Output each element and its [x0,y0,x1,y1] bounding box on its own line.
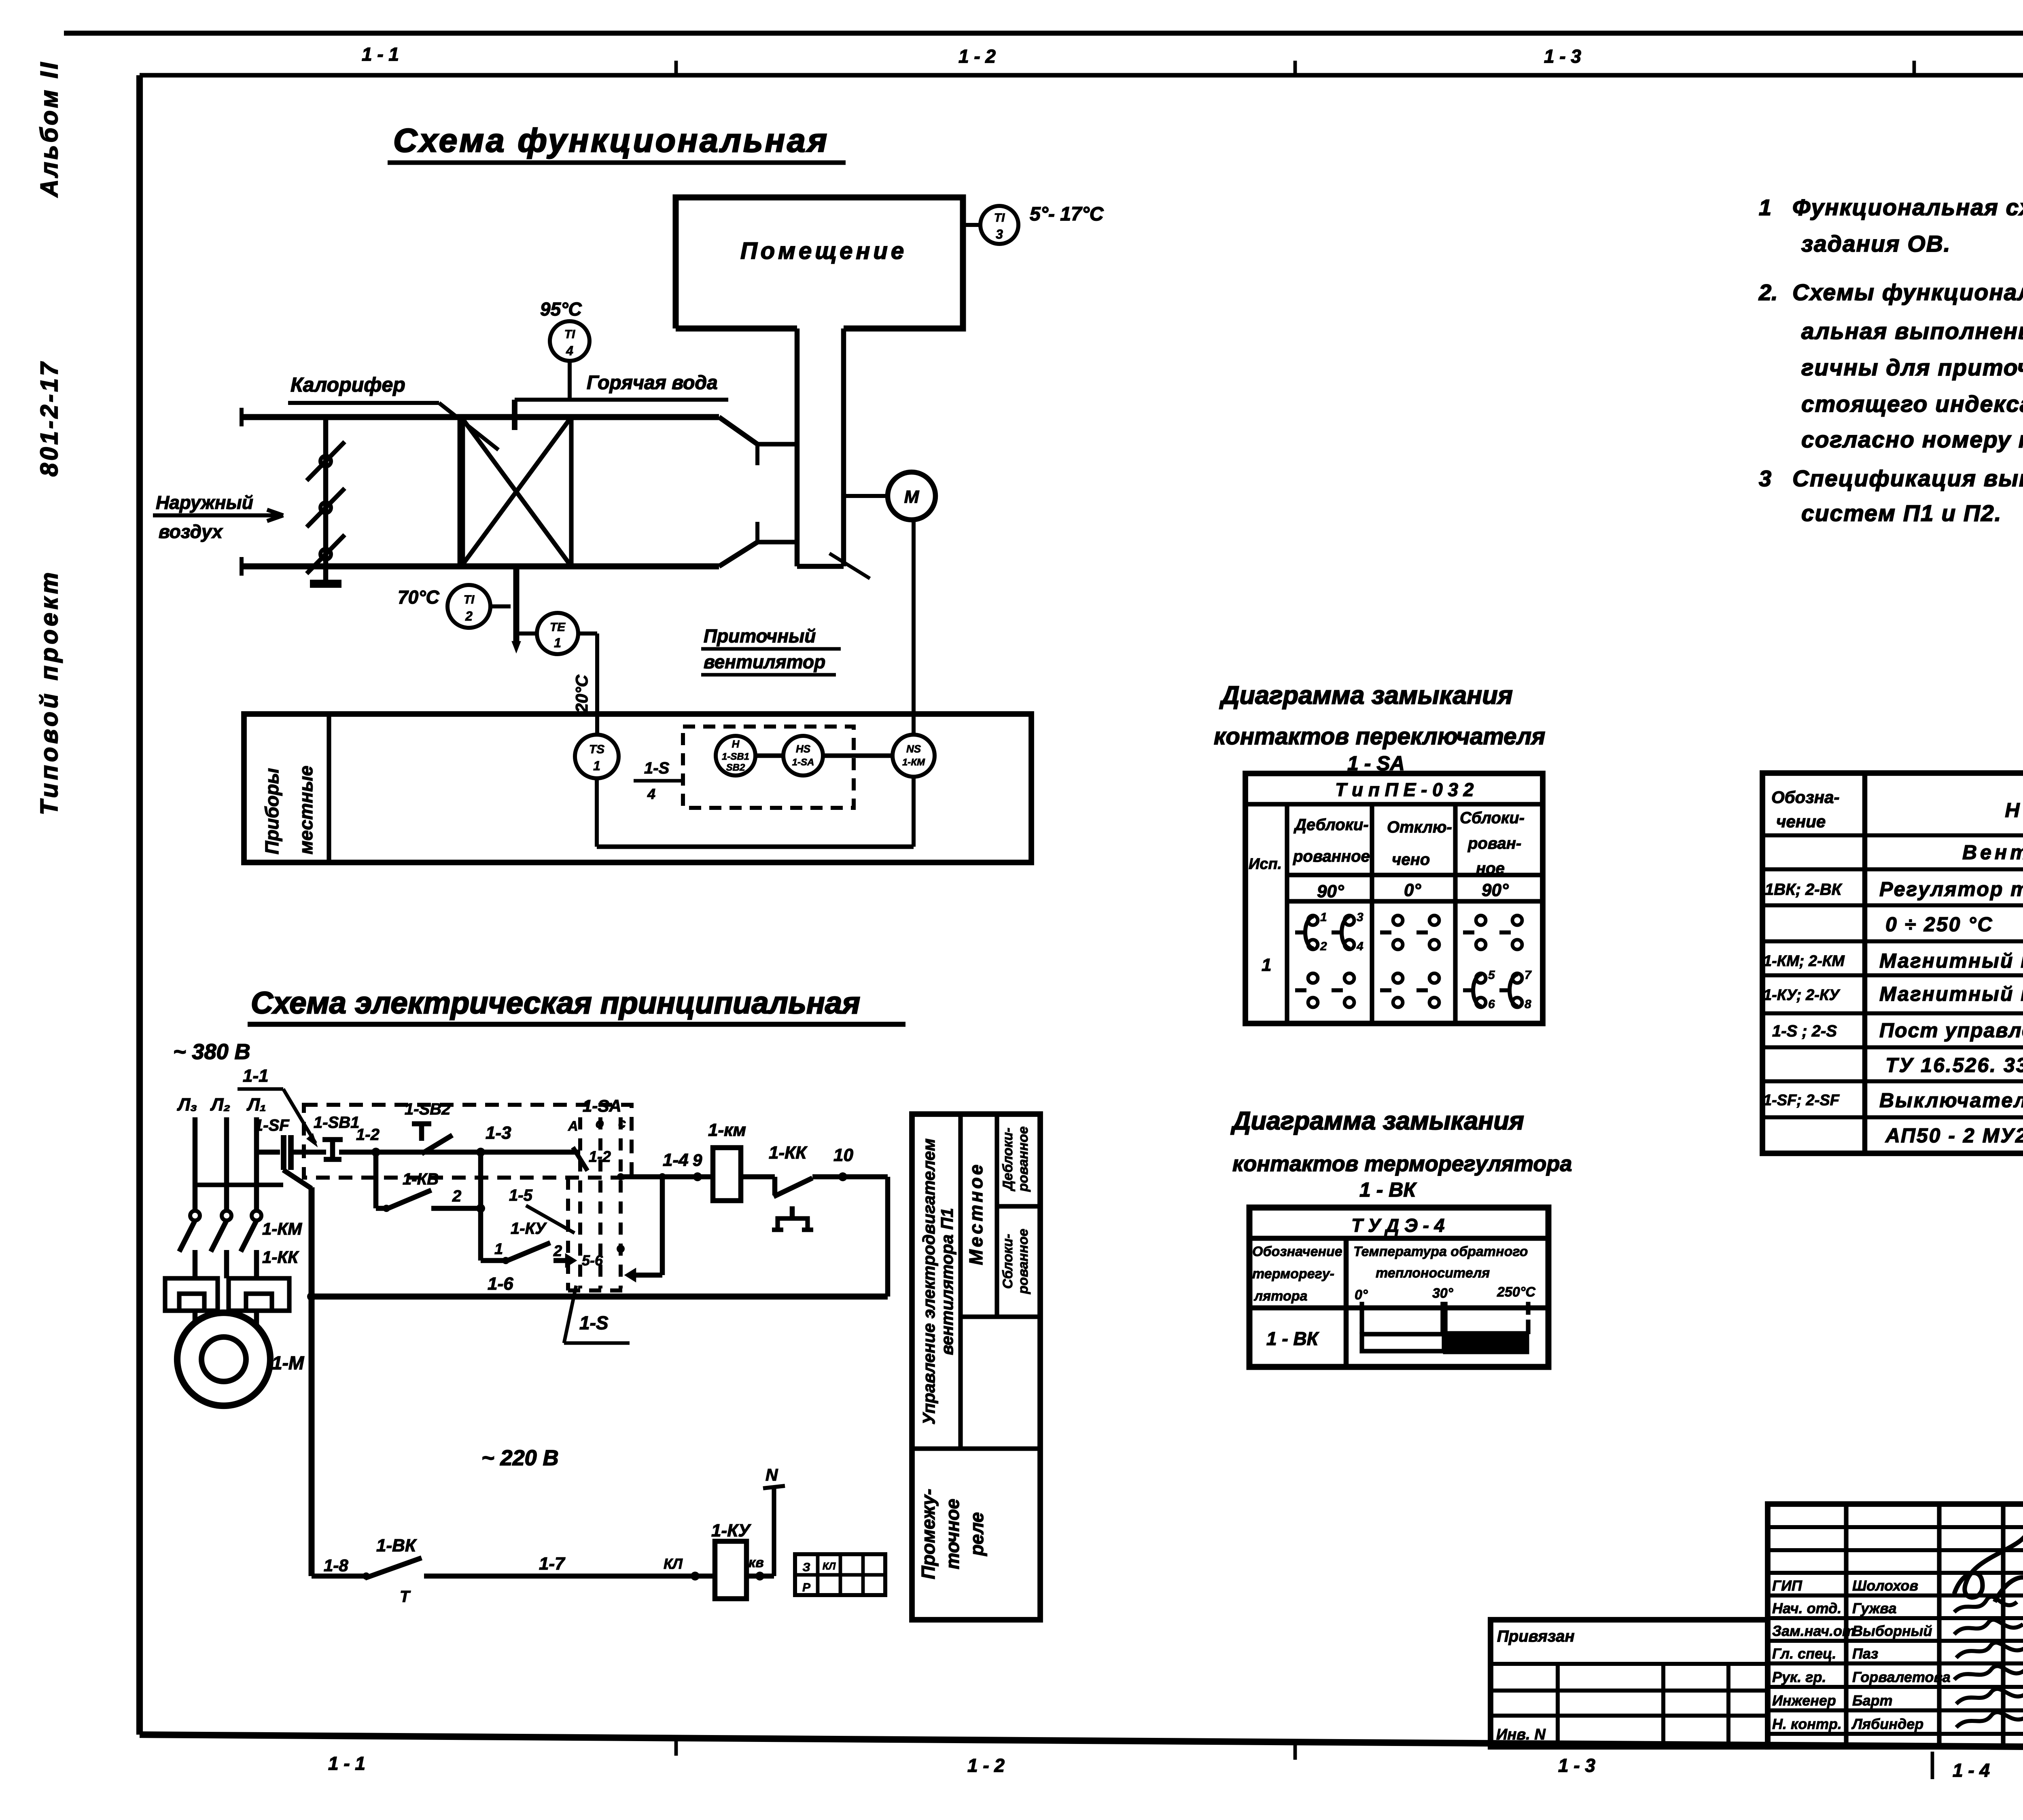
svg-text:Л₂: Л₂ [210,1095,230,1114]
svg-text:1-SВ2: 1-SВ2 [405,1100,450,1118]
hot water pipe [515,398,728,402]
svg-text:Сблоки-: Сблоки- [1460,809,1525,827]
svg-text:Т У Д Э - 4: Т У Д Э - 4 [1351,1215,1444,1236]
room box Помещение [676,197,963,328]
svg-text:1-S ; 2-S: 1-S ; 2-S [1772,1022,1837,1040]
contact symbols sblokirovannoe open pair [1463,930,1474,934]
sensor TI-3 [963,223,981,227]
sheet outer top border line [64,31,2023,36]
svg-text:1-S: 1-S [579,1312,609,1333]
junction node for KV branch [371,1148,380,1157]
svg-text:Лябиндер: Лябиндер [1851,1716,1923,1732]
scale tick 0 [1359,1302,1364,1334]
svg-text:7: 7 [1525,968,1532,982]
svg-text:Схема функциональная: Схема функциональная [393,122,829,159]
bottom zone tick 3 [1931,1752,1934,1779]
svg-text:о: о [596,1116,604,1131]
schematic title underline [248,1022,905,1027]
dashed box of control post 1-S [304,1105,632,1178]
svg-text:ТУ 16.526. 333 - 74: ТУ 16.526. 333 - 74 [1885,1054,2023,1076]
svg-text:1-SВ1: 1-SВ1 [722,751,749,762]
svg-text:Исп.: Исп. [1249,856,1282,873]
svg-text:1-КМ: 1-КМ [902,757,925,768]
svg-text:Гужва: Гужва [1852,1600,1896,1617]
svg-text:Схемы функциональная и электри: Схемы функциональная и электрическая при… [1792,280,2023,305]
parts table row line 8 [1762,1079,2023,1083]
svg-text:альная выполнены для приточной: альная выполнены для приточной системы П… [1801,318,2023,344]
svg-text:70°С: 70°С [398,587,440,608]
svg-text:1-КМ; 2-КМ: 1-КМ; 2-КМ [1763,953,1845,970]
sensor TE-1 [537,613,578,654]
svg-text:Деблоки-: Деблоки- [1294,816,1369,834]
svg-text:НS: НS [796,743,811,755]
parts table frame [1762,773,2023,1153]
svg-text:систем П1 и П2.: систем П1 и П2. [1801,500,2002,526]
svg-text:Н: Н [732,738,740,750]
svg-text:Сблоки-: Сблоки- [1000,1234,1016,1289]
svg-text:6: 6 [1488,998,1495,1011]
svg-text:Н. контр.: Н. контр. [1772,1716,1842,1732]
svg-text:М: М [904,487,920,507]
svg-text:Инв. N: Инв. N [1496,1726,1546,1743]
column divider 2 [1370,804,1374,1023]
svg-text:801-2-17: 801-2-17 [36,360,63,477]
phase link wire [195,1182,283,1187]
svg-text:Спецификация выполнена для при: Спецификация выполнена для приточных [1792,466,2023,492]
svg-text:1-ВК: 1-ВК [376,1536,417,1555]
parts table column oboznachenie [1862,773,1868,1153]
signature col 1 [1844,1504,1848,1747]
selector 1-SA dashed column O [598,1117,602,1288]
svg-text:0°: 0° [1355,1287,1368,1303]
bottom zone tick 1 [674,1738,678,1756]
svg-text:1 - 2: 1 - 2 [967,1755,1005,1776]
svg-text:5-6: 5-6 [582,1252,603,1269]
parts table row line 2 [1762,867,2023,871]
main contact terminals [190,1211,200,1220]
svg-text:Инженер: Инженер [1772,1692,1836,1709]
svg-text:ТI: ТI [564,328,575,341]
svg-text:4: 4 [647,786,655,802]
svg-text:1 - 1: 1 - 1 [362,44,399,65]
svg-text:рованное: рованное [1016,1126,1031,1192]
closed state bar filled [1444,1332,1528,1353]
svg-text:1-S: 1-S [644,759,670,777]
svg-text:Приточный: Приточный [704,625,816,646]
svg-text:4: 4 [1356,940,1364,953]
indicator H 1-SB1 SB2 [716,736,755,775]
svg-text:2: 2 [1320,940,1327,953]
parts table row line 4 [1762,939,2023,943]
header bottom line [1249,1305,1548,1311]
sensor TI-2 [447,585,490,628]
svg-text:Управление электродвигателем: Управление электродвигателем [919,1138,938,1424]
inner frame bottom border [140,1735,2023,1750]
heater section with cross [458,417,465,566]
svg-text:согласно номеру приточной сист: согласно номеру приточной системы. [1801,427,2023,453]
svg-text:Л₁: Л₁ [246,1095,266,1114]
svg-text:1: 1 [494,1241,503,1258]
svg-text:~ 220 В: ~ 220 В [481,1446,559,1470]
svg-text:1-КК: 1-КК [769,1143,808,1163]
svg-text:1-км: 1-км [708,1120,746,1140]
sensor TS-1 [575,735,619,778]
svg-text:1 - 3: 1 - 3 [1544,46,1581,67]
svg-text:Магнитный пускатель ПМЕ - 08: Магнитный пускатель ПМЕ - 081 [1879,983,2023,1005]
feedback wire to column C [660,1177,665,1275]
contact symbols deblokirovannoe open pair [1295,988,1306,992]
title block signature table frame [1768,1504,2023,1747]
right return wire [885,1177,891,1297]
left extension col 1 [1556,1664,1560,1747]
svg-text:вентилятор: вентилятор [704,651,825,672]
signature row line 4 [1768,1593,2023,1598]
svg-text:Отклю-: Отклю- [1387,818,1452,836]
svg-text:Выключатель автоматический: Выключатель автоматический [1879,1089,2023,1112]
signature row line 1 [1768,1525,2023,1529]
svg-text:1-М: 1-М [272,1352,305,1373]
left extension row line 1 [1491,1662,1768,1666]
svg-text:1-3: 1-3 [486,1123,511,1143]
svg-text:Н а и м е н о в а н и е: Н а и м е н о в а н и е [2005,799,2023,822]
svg-text:1-КУ; 2-КУ: 1-КУ; 2-КУ [1763,987,1841,1004]
title block left extension frame [1491,1620,1768,1747]
top zone tick 3 [1913,61,1916,77]
parts table row line 5 [1762,973,2023,977]
svg-text:Вентиляторы П1, П2: Вентиляторы П1, П2 [1962,841,2023,864]
svg-text:контактов переключателя: контактов переключателя [1214,723,1545,750]
phase wire L3 [193,1117,198,1211]
svg-text:1-5: 1-5 [509,1186,533,1204]
top zone tick 2 [1294,61,1297,77]
svg-text:1-1: 1-1 [243,1066,269,1086]
svg-text:Обозначение: Обозначение [1252,1244,1342,1259]
signature row line 2 [1768,1548,2023,1552]
svg-text:3: 3 [1759,466,1771,491]
air damper louver [323,417,329,584]
thermal overload heater right [229,1278,289,1311]
sensor well stem [513,566,520,646]
svg-text:5°- 17°С: 5°- 17°С [1030,203,1104,225]
svg-text:Альбом II: Альбом II [36,60,63,198]
svg-text:3: 3 [996,227,1003,242]
svg-text:гичны для приточной системы П2: гичны для приточной системы П2 с заменой… [1801,355,2023,381]
signature col 3 [2001,1504,2005,1747]
signature row line 8 [1768,1685,2023,1689]
svg-text:Т: Т [400,1588,411,1606]
svg-text:Помещение: Помещение [740,238,907,264]
left extension row line 2 [1491,1689,1768,1693]
svg-text:терморегу-: терморегу- [1252,1266,1334,1282]
svg-text:Диаграмма замыкания: Диаграмма замыкания [1219,681,1513,710]
terminal strip table [795,1554,885,1595]
svg-text:ТI: ТI [464,593,475,606]
svg-text:SВ2: SВ2 [726,762,745,773]
svg-text:ТS: ТS [589,743,604,756]
subheader line 2 [1287,899,1543,903]
svg-text:Зам.нач.от: Зам.нач.от [1772,1623,1855,1639]
svg-text:1-SF: 1-SF [254,1117,290,1134]
svg-text:Деблоки-: Деблоки- [1000,1127,1016,1191]
parts table row line 7 [1762,1045,2023,1049]
contact symbols sblokirovannoe closed pair [1463,988,1474,992]
svg-text:Гл. спец.: Гл. спец. [1772,1645,1836,1662]
svg-text:Обозна-: Обозна- [1771,788,1839,807]
signature row line 10 [1768,1732,2023,1736]
svg-text:Пост управления ПКУ 15 - 19.1: Пост управления ПКУ 15 - 19.131- 54У2 [1879,1019,2023,1042]
dashed instrument group box [683,727,854,808]
svg-text:Типовой проект: Типовой проект [36,569,63,815]
SA closed contact slash [573,1147,587,1171]
svg-text:1-2: 1-2 [589,1148,611,1165]
svg-text:кв: кв [749,1555,764,1570]
svg-text:ТЕ: ТЕ [550,621,566,634]
sensor TI-4 [550,321,590,361]
signature row line 3 [1768,1571,2023,1575]
wire node to SA column A [481,1150,580,1155]
left extension row line 3 [1491,1714,1768,1718]
svg-text:Паз: Паз [1852,1645,1878,1662]
svg-text:Функциональная схема разработа: Функциональная схема разработана на осно… [1792,195,2023,220]
starter NS 1-KM [893,735,935,777]
svg-text:1: 1 [1759,195,1771,220]
svg-text:10: 10 [833,1145,853,1165]
inner frame left border [136,75,143,1735]
svg-text:Температура обратного: Температура обратного [1353,1244,1528,1259]
svg-text:1-SF; 2-SF: 1-SF; 2-SF [1763,1092,1840,1109]
title underline [388,160,846,165]
svg-text:30°: 30° [1432,1286,1453,1301]
svg-text:местные: местные [295,766,316,854]
column divider Isp [1285,804,1289,1023]
svg-text:Схема электрическая принципи: Схема электрическая принципиальная [251,986,860,1020]
svg-text:АП50 - 2 МУ2: АП50 - 2 МУ2 [1885,1124,2023,1147]
svg-text:Шолохов: Шолохов [1852,1577,1918,1594]
svg-text:Р: Р [802,1581,811,1594]
svg-text:А: А [568,1119,578,1134]
open state bar [1362,1334,1444,1351]
line down from TE-1 [595,634,599,734]
svg-text:Л₃: Л₃ [177,1095,197,1114]
signature row line 5 [1768,1616,2023,1620]
svg-text:1 - ВК: 1 - ВК [1266,1328,1319,1349]
svg-text:1: 1 [554,636,561,650]
thermal overload heater left [165,1278,218,1311]
svg-text:20°С: 20°С [572,674,591,713]
wire M to NS [912,520,916,735]
contact symbols otklyucheno all open [1380,930,1391,934]
phase wire L2 [224,1117,229,1211]
contact symbols deblokirovannoe closed pair [1295,930,1306,934]
svg-text:стоящего индекса в маркировке: стоящего индекса в маркировке цепей и ап… [1801,391,2023,417]
motor 1-M [177,1313,270,1406]
svg-text:Горвалетова: Горвалетова [1852,1669,1951,1685]
fan cone [719,417,757,444]
svg-text:90°: 90° [1317,881,1344,901]
signature row line 6 [1768,1639,2023,1643]
svg-text:0°: 0° [1404,880,1421,900]
svg-text:чено: чено [1392,851,1430,869]
svg-text:Диаграмма замыкания: Диаграмма замыкания [1230,1107,1524,1135]
motor symbol M [844,494,888,498]
svg-text:NS: NS [906,743,921,755]
svg-text:1-КК: 1-КК [262,1248,299,1267]
svg-text:1-7: 1-7 [539,1554,566,1574]
header row line [1245,802,1543,806]
wire SA column C to coil [621,1174,713,1180]
parts table row line 3 [1762,903,2023,907]
svg-text:1-SА: 1-SА [792,757,814,768]
svg-text:ТI: ТI [994,211,1005,225]
svg-text:N: N [766,1465,778,1484]
svg-text:0 ÷ 250 °С: 0 ÷ 250 °С [1885,913,1993,936]
signature row line 7 [1768,1661,2023,1665]
svg-text:Привязан: Привязан [1497,1627,1575,1645]
heater leader line [439,403,498,450]
zone band bottom line / inner frame top [140,73,2023,77]
svg-text:Выборный: Выборный [1852,1623,1932,1639]
left column divider [1344,1238,1349,1367]
svg-text:95°С: 95°С [540,299,582,320]
control designation table [912,1114,1040,1620]
column divider 3 [1453,804,1457,1023]
duct bottom line [242,564,719,570]
duct top line [242,414,719,420]
svg-text:1 - 1: 1 - 1 [328,1753,365,1774]
svg-text:5: 5 [1488,968,1495,982]
svg-text:4: 4 [566,343,573,358]
svg-text:З: З [802,1561,810,1574]
switch diagram table frame [1245,773,1543,1023]
svg-text:Регулятор температуры ТУДЭ - 4: Регулятор температуры ТУДЭ - 4 [1879,878,2023,900]
phase wire L1 [254,1117,259,1211]
fan label leader [829,553,870,578]
svg-text:~ 380 В: ~ 380 В [173,1040,250,1064]
svg-text:чение: чение [1776,812,1826,831]
svg-text:Местное: Местное [965,1162,986,1265]
parts table row line 6 [1762,1011,2023,1015]
wire SB1 to node [339,1150,481,1155]
svg-text:реле: реле [966,1512,987,1557]
svg-text:9: 9 [693,1150,702,1170]
parts table row line 1 [1762,833,2023,837]
switch HS 1-SA [783,736,823,775]
svg-text:Барт: Барт [1852,1692,1893,1709]
svg-text:1 - 4: 1 - 4 [1953,1760,1990,1781]
svg-text:воздух: воздух [159,521,223,542]
signature row line 9 [1768,1708,2023,1712]
svg-text:рованное: рованное [1016,1229,1031,1294]
svg-text:Горячая вода: Горячая вода [587,372,718,394]
svg-text:8: 8 [1525,998,1531,1011]
scale tick 30 [1440,1302,1448,1334]
svg-text:лятора: лятора [1253,1288,1307,1304]
svg-text:1-КУ: 1-КУ [511,1220,547,1237]
left extension col 3 [1726,1664,1730,1747]
selector 1-SA dashed column A [578,1117,582,1288]
svg-text:1-4: 1-4 [663,1150,689,1170]
svg-text:2.: 2. [1758,280,1778,305]
svg-text:2: 2 [452,1187,461,1205]
svg-text:3: 3 [1357,911,1364,924]
parts table row line 9 [1762,1115,2023,1119]
svg-text:вентилятора П1: вентилятора П1 [937,1208,956,1355]
svg-text:точное: точное [942,1499,963,1569]
top zone tick 1 [674,61,678,77]
svg-text:1-КВ: 1-КВ [403,1170,439,1188]
selector 1-SA dashed column C [619,1117,623,1288]
svg-text:1 - 2: 1 - 2 [958,46,996,67]
thermoregulator table frame [1249,1208,1548,1367]
discharge duct channel [795,328,800,566]
svg-text:Калорифер: Калорифер [291,373,405,396]
svg-text:1-SА: 1-SА [583,1096,621,1115]
selector dashed bottom extension [568,1288,631,1292]
svg-text:1 - 3: 1 - 3 [1558,1755,1595,1776]
svg-text:Наружный: Наружный [156,492,253,513]
svg-text:с: с [618,1116,626,1131]
svg-text:1-КУ: 1-КУ [711,1521,751,1540]
svg-text:1-8: 1-8 [324,1556,348,1575]
svg-text:1: 1 [1320,911,1327,924]
svg-text:Т и п П Е - 0 3 2: Т и п П Е - 0 3 2 [1335,779,1474,800]
svg-text:1-6: 1-6 [488,1274,513,1294]
wire L1 to breaker [257,1150,280,1155]
svg-text:1-2: 1-2 [356,1126,380,1144]
svg-text:2: 2 [465,609,473,623]
svg-text:Магнитный пускатель ПМЕ - 232: Магнитный пускатель ПМЕ - 232 [1879,949,2023,972]
signature col 2 [1937,1504,1941,1747]
svg-text:рованное: рованное [1293,847,1370,865]
svg-text:Промежу-: Промежу- [918,1489,939,1579]
svg-text:теплоносителя: теплоносителя [1376,1265,1490,1281]
svg-text:задания ОВ.: задания ОВ. [1801,231,1951,257]
svg-text:1 - ВК: 1 - ВК [1359,1178,1417,1201]
svg-text:1: 1 [1262,955,1271,975]
svg-text:рован-: рован- [1467,835,1521,852]
svg-text:контактов терморегулятора: контактов терморегулятора [1232,1152,1572,1176]
svg-text:Нач. отд.: Нач. отд. [1772,1600,1841,1617]
svg-text:1-SВ1: 1-SВ1 [314,1114,359,1131]
svg-text:2: 2 [553,1243,562,1260]
control circuit left vertical wire [309,1187,315,1576]
signature scribbles [1954,1533,2023,1602]
svg-text:Рук. гр.: Рук. гр. [1772,1669,1826,1685]
local instruments box [244,714,1031,862]
svg-text:1: 1 [593,759,600,773]
svg-text:250°С: 250°С [1497,1284,1535,1300]
instruments bottom wire [597,844,914,849]
svg-text:Приборы: Приборы [261,768,282,854]
bottom zone tick 2 [1294,1742,1297,1760]
svg-text:90°: 90° [1482,880,1509,900]
svg-text:КЛ: КЛ [664,1555,683,1572]
left extension col 2 [1661,1664,1665,1747]
svg-text:ГИП: ГИП [1772,1577,1802,1594]
svg-text:1-КМ: 1-КМ [262,1219,302,1238]
svg-text:КЛ: КЛ [823,1561,836,1572]
svg-text:1ВК; 2-ВК: 1ВК; 2-ВК [1765,881,1843,898]
scale tick 250 [1526,1302,1530,1315]
subheader line [1287,873,1543,877]
